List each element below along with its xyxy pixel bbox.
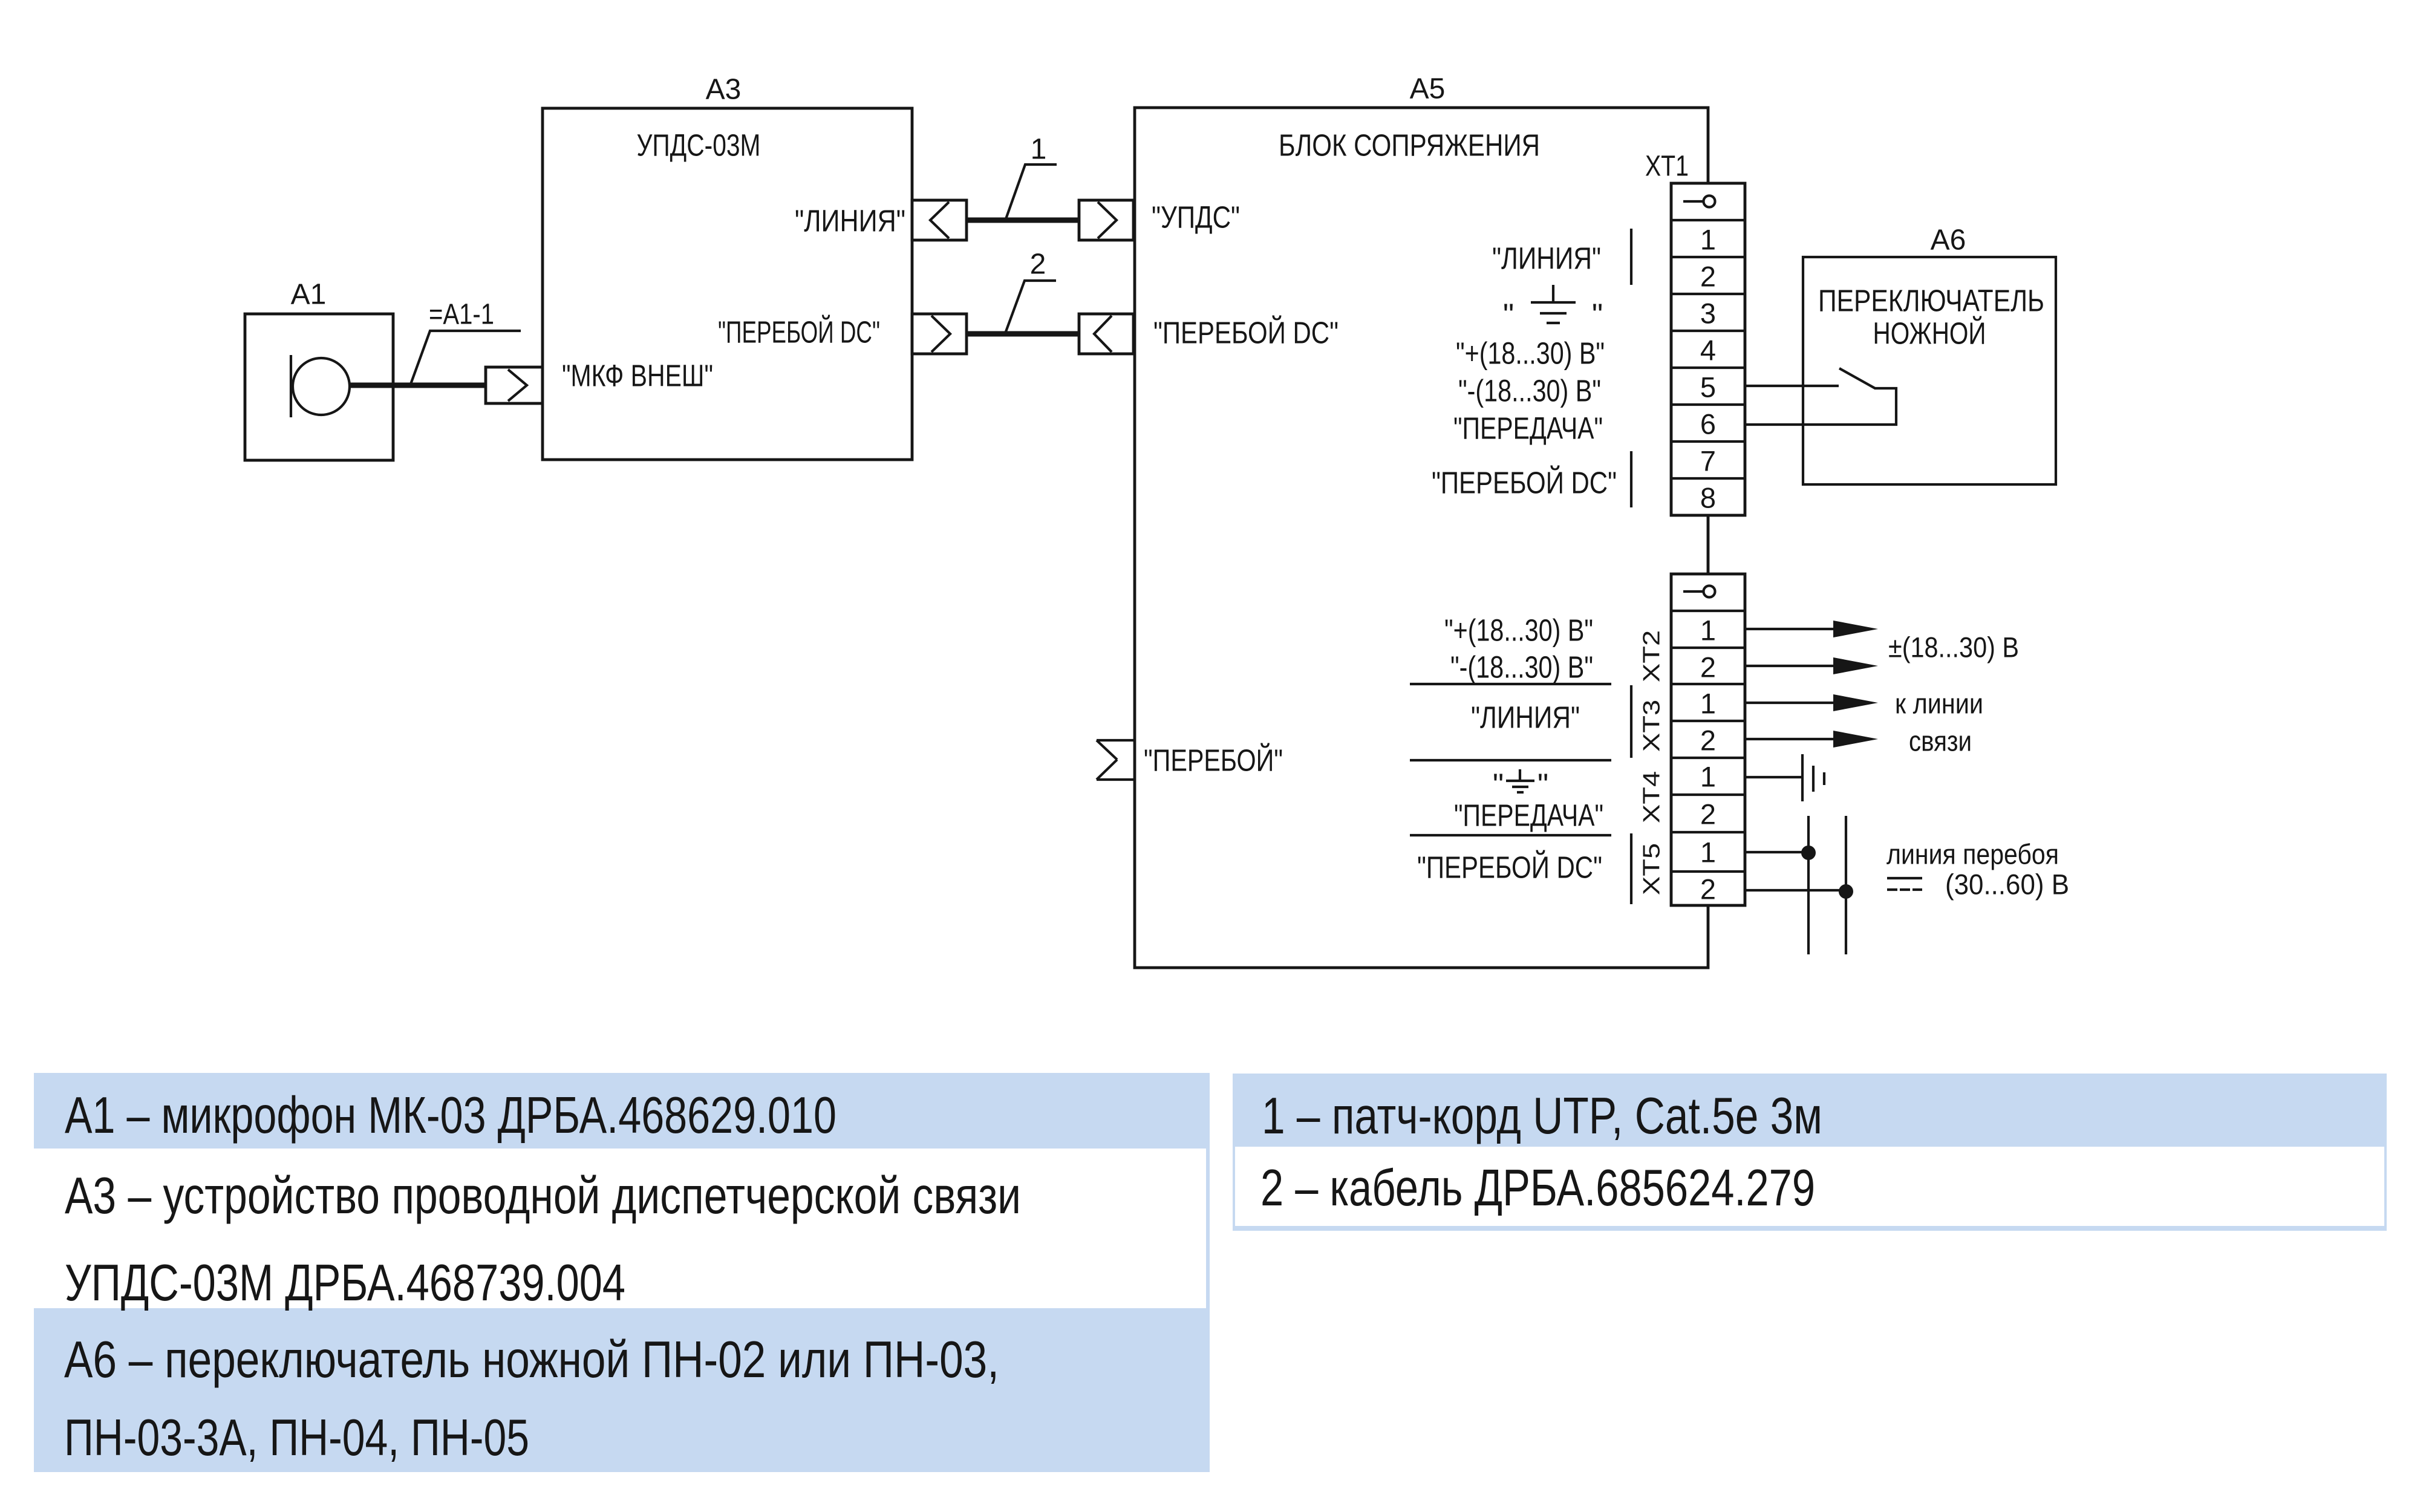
wire XT2-2 output with arrow [1745,657,1878,674]
svg-text:ХТ2: ХТ2 [1639,630,1665,682]
wire XT4-1 to chassis ground [1745,776,1802,778]
svg-text:": " [1537,767,1548,802]
legend right block background [1233,1074,2387,1231]
svg-text:": " [1503,298,1514,332]
connector УПДС on A5 left edge [1079,200,1133,240]
separator line [1410,683,1611,685]
svg-text:8: 8 [1700,482,1716,514]
svg-text:А6 – переключатель ножной ПН-0: А6 – переключатель ножной ПН-02 или ПН-0… [64,1331,999,1389]
legend left block background [34,1073,1210,1472]
legend right white row [1235,1147,2384,1226]
group bar XT5 [1630,833,1632,904]
connector ПЕРЕБОЙ DC on A5 left edge [1079,314,1133,354]
svg-text:1: 1 [1700,836,1716,868]
svg-text:ПН-03-3А, ПН-04, ПН-05: ПН-03-3А, ПН-04, ПН-05 [64,1409,529,1467]
vertical line of линия перебоя (2) [1845,816,1847,954]
XT1 disconnect symbol [1683,196,1715,207]
svg-text:А6: А6 [1931,224,1966,256]
svg-text:±(18...30) В: ±(18...30) В [1888,631,2019,663]
wire 2: cable between A3 ПЕРЕБОЙ DC and A5 ПЕРЕБОЙ DC [967,331,1079,337]
svg-text:НОЖНОЙ: НОЖНОЙ [1873,316,1986,351]
svg-text:"МКФ ВНЕШ": "МКФ ВНЕШ" [562,359,713,393]
microphone symbol [291,355,350,417]
group bar XT1 pins 1-2 [1630,229,1632,285]
callout label 2 [1005,249,1056,334]
svg-text:1 – патч-корд UTP, Cat.5e 3м: 1 – патч-корд UTP, Cat.5e 3м [1262,1087,1822,1145]
svg-text:(30...60) В: (30...60) В [1945,868,2069,901]
wire A1 microphone to A3 МКФ ВНЕШ (cable =A1-1) [348,383,486,388]
wire XT5-1 to line [1745,851,1808,853]
svg-text:"ПЕРЕБОЙ DC": "ПЕРЕБОЙ DC" [1417,850,1602,885]
svg-text:"+(18...30) В": "+(18...30) В" [1456,336,1605,371]
svg-text:1: 1 [1031,134,1047,166]
svg-text:"ПЕРЕБОЙ DC": "ПЕРЕБОЙ DC" [1153,315,1339,350]
svg-text:2: 2 [1700,725,1716,757]
svg-text:"ЛИНИЯ": "ЛИНИЯ" [1471,700,1580,735]
group bar XT1 pins 7-8 [1630,451,1632,507]
svg-text:5: 5 [1700,371,1716,403]
svg-text:связи: связи [1909,725,1972,757]
svg-text:1: 1 [1700,224,1716,256]
block A3 УПДС-03М [543,74,912,460]
svg-text:=А1-1: =А1-1 [429,299,494,331]
svg-text:"ПЕРЕБОЙ": "ПЕРЕБОЙ" [1144,743,1283,778]
svg-text:А1: А1 [291,279,327,311]
ground symbol (XT4-1 label) [1493,767,1548,802]
svg-text:1: 1 [1700,761,1716,793]
svg-text:": " [1493,767,1504,802]
svg-text:"ЛИНИЯ": "ЛИНИЯ" [795,204,905,238]
DC voltage symbol [1887,878,1922,890]
wire XT3-2 output with arrow [1745,731,1878,748]
block A1 (microphone unit) [245,279,393,461]
connector ЛИНИЯ on A3 right edge [912,200,967,240]
svg-text:А3: А3 [706,74,742,106]
svg-text:"ЛИНИЯ": "ЛИНИЯ" [1492,241,1601,276]
wire XT3-1 output with arrow [1745,694,1878,711]
legend left white row [34,1149,1206,1308]
connector ПЕРЕБОЙ on A5 left edge [1097,740,1135,780]
wire XT1 pin 6 to A6 switch fixed contact [1745,388,1896,425]
label =A1-1 with leader [411,299,521,385]
svg-text:ХТ4: ХТ4 [1639,771,1665,823]
wire XT2-1 output with arrow [1745,621,1878,637]
callout label 1 [1006,134,1057,220]
svg-text:ХТ1: ХТ1 [1645,151,1689,183]
terminal strip XT1 [1645,151,1745,516]
svg-text:"ПЕРЕДАЧА": "ПЕРЕДАЧА" [1453,411,1603,446]
svg-text:линия перебоя: линия перебоя [1886,838,2059,870]
svg-text:2: 2 [1700,873,1716,905]
chassis ground symbol (rotated) [1802,754,1824,801]
svg-text:"-(18...30) В": "-(18...30) В" [1450,650,1593,685]
wire 1: patch cord between A3 ЛИНИЯ and A5 УПДС [967,218,1079,223]
svg-text:А5: А5 [1410,73,1446,105]
svg-text:4: 4 [1700,334,1716,367]
separator line [1410,759,1611,761]
svg-text:ПЕРЕКЛЮЧАТЕЛЬ: ПЕРЕКЛЮЧАТЕЛЬ [1818,284,2044,318]
vertical line of линия перебоя (1) [1807,816,1810,954]
svg-text:"УПДС": "УПДС" [1152,200,1240,235]
connector МКФ ВНЕШ on A3 left edge [486,367,543,403]
ground symbol (XT1 pin 3) [1503,285,1603,332]
svg-text:УПДС-03М: УПДС-03М [637,128,761,163]
svg-text:2: 2 [1700,261,1716,293]
svg-text:2: 2 [1700,798,1716,830]
svg-text:к линии: к линии [1895,688,1983,720]
svg-text:А1 – микрофон МК-03 ДРБА.46862: А1 – микрофон МК-03 ДРБА.468629.010 [65,1087,836,1144]
group bar XT3 [1630,685,1632,758]
junction XT5-2 [1839,884,1853,899]
svg-text:7: 7 [1700,445,1716,477]
lower strip disconnect symbol [1683,586,1715,598]
block A6 foot switch [1803,224,2056,485]
svg-text:1: 1 [1700,688,1716,720]
svg-text:"ПЕРЕДАЧА": "ПЕРЕДАЧА" [1454,798,1603,833]
svg-text:6: 6 [1700,408,1716,440]
svg-text:3: 3 [1700,298,1716,330]
svg-text:1: 1 [1700,614,1716,647]
wire XT5-2 to line [1745,889,1846,891]
svg-text:2: 2 [1700,651,1716,683]
block A5 БЛОК СОПРЯЖЕНИЯ [1135,73,1708,968]
svg-text:А3 – устройство проводной дисп: А3 – устройство проводной диспетчерской … [65,1167,1021,1225]
junction XT5-1 [1801,846,1816,860]
wire XT1 pin 8 to strip XT2-XT5 [1707,515,1709,574]
switch blade (foot switch contact) [1839,368,1875,388]
svg-text:"ПЕРЕБОЙ DC": "ПЕРЕБОЙ DC" [718,314,880,350]
wire XT1 pin 5 to A6 switch [1745,385,1839,387]
svg-text:ХТ5: ХТ5 [1639,843,1665,895]
connector ПЕРЕБОЙ DC on A3 right edge [912,314,967,354]
svg-text:БЛОК СОПРЯЖЕНИЯ: БЛОК СОПРЯЖЕНИЯ [1279,128,1540,163]
svg-text:ХТ3: ХТ3 [1639,700,1665,752]
separator line [1410,834,1611,836]
svg-text:"ПЕРЕБОЙ DC": "ПЕРЕБОЙ DC" [1432,465,1617,500]
svg-text:": " [1592,298,1603,332]
svg-text:"-(18...30) В": "-(18...30) В" [1458,374,1601,408]
terminal strip XT2-XT5 [1671,574,1745,905]
svg-text:УПДС-03М ДРБА.468739.004: УПДС-03М ДРБА.468739.004 [65,1254,625,1312]
svg-text:2 – кабель ДРБА.685624.279: 2 – кабель ДРБА.685624.279 [1260,1159,1815,1217]
svg-text:"+(18...30) В": "+(18...30) В" [1444,613,1593,648]
svg-text:2: 2 [1030,249,1046,281]
